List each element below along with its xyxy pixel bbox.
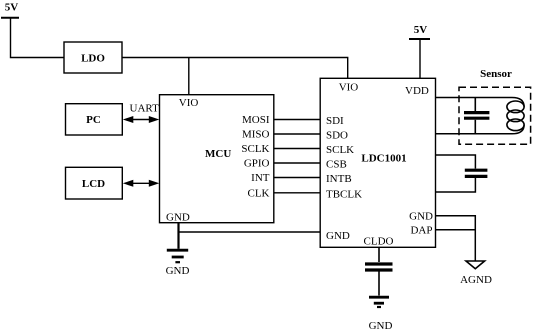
svg-text:GND: GND — [166, 265, 190, 277]
wire MOSI to SDI — [274, 119, 320, 121]
svg-text:MOSI: MOSI — [242, 114, 270, 126]
svg-text:GPIO: GPIO — [244, 158, 270, 170]
wire LDC1001 to sensor top — [436, 98, 525, 107]
ground symbol (CLDO) — [369, 297, 393, 330]
svg-text:VIO: VIO — [179, 97, 199, 109]
wire SCLK to SCLK — [274, 148, 320, 150]
5V supply rail left — [1, 1, 19, 17]
svg-text:5V: 5V — [5, 1, 19, 13]
wire bypass capacitor bottom to LDC1001 — [436, 178, 476, 192]
wire MISO to SDO — [274, 133, 320, 135]
wire CLK to TBCLK — [274, 192, 320, 194]
svg-text:MISO: MISO — [242, 129, 270, 141]
svg-text:GND: GND — [369, 320, 393, 330]
PC block — [66, 104, 123, 135]
svg-text:INTB: INTB — [326, 173, 352, 185]
LCD bidirectional arrow — [123, 180, 160, 187]
wire MCU GND down — [177, 223, 179, 249]
wire VIO branch to MCU — [188, 58, 190, 95]
svg-text:LDO: LDO — [81, 53, 105, 65]
UART label — [130, 103, 160, 115]
wire LDO output to LDC1001 VIO — [122, 58, 348, 79]
sensor dashed box — [459, 87, 531, 144]
wire 5V to LDO input — [11, 18, 65, 58]
inductor L1 (sensor coil) — [507, 101, 524, 131]
MCU block — [160, 95, 274, 224]
UART bidirectional arrow — [123, 116, 160, 123]
svg-text:AGND: AGND — [460, 274, 492, 286]
svg-text:CSB: CSB — [326, 159, 347, 171]
svg-text:LDC1001: LDC1001 — [361, 152, 406, 164]
voltage regulator LDO — [64, 42, 122, 73]
svg-text:INT: INT — [251, 172, 270, 184]
svg-text:MCU: MCU — [205, 148, 231, 160]
capacitor C3 (CLDO) — [365, 264, 393, 270]
LDC1001 block — [320, 78, 435, 247]
ground symbol (MCU) — [166, 250, 190, 277]
wire C3 to ground — [378, 272, 380, 296]
svg-text:PC: PC — [86, 114, 101, 126]
wire LDC1001 to sensor bottom — [436, 125, 525, 134]
svg-text:GND: GND — [326, 230, 350, 242]
svg-text:SCLK: SCLK — [241, 143, 269, 155]
wire DAP pin to AGND — [436, 229, 476, 231]
svg-text:SDO: SDO — [326, 130, 348, 142]
svg-text:VIO: VIO — [339, 82, 359, 94]
svg-text:5V: 5V — [414, 24, 428, 36]
svg-text:DAP: DAP — [410, 224, 432, 236]
svg-text:Sensor: Sensor — [480, 68, 512, 80]
wire MCU GND to LDC1001 GND — [179, 231, 321, 233]
LCD block — [66, 167, 123, 199]
svg-text:UART: UART — [130, 103, 160, 115]
capacitor C2 (bypass) — [465, 170, 488, 176]
sensor label — [480, 68, 512, 80]
wire INT to INTB — [274, 177, 320, 179]
svg-text:SCLK: SCLK — [326, 144, 354, 156]
svg-text:LCD: LCD — [82, 178, 105, 190]
svg-text:VDD: VDD — [405, 85, 429, 97]
wire 5V to VDD — [419, 39, 421, 78]
svg-text:CLK: CLK — [248, 188, 270, 200]
svg-text:TBCLK: TBCLK — [326, 188, 362, 200]
wire to bypass capacitor top — [436, 155, 476, 169]
wire GND pin to AGND — [436, 216, 476, 261]
5V supply rail right — [409, 24, 430, 39]
capacitor C1 (sensor) — [464, 98, 489, 134]
AGND symbol — [460, 261, 492, 286]
svg-text:CLDO: CLDO — [364, 236, 394, 248]
svg-text:SDI: SDI — [326, 115, 344, 127]
svg-text:GND: GND — [409, 210, 433, 222]
wire CLDO down — [378, 247, 380, 262]
wire GPIO to CSB — [274, 162, 320, 164]
svg-text:GND: GND — [166, 212, 190, 224]
